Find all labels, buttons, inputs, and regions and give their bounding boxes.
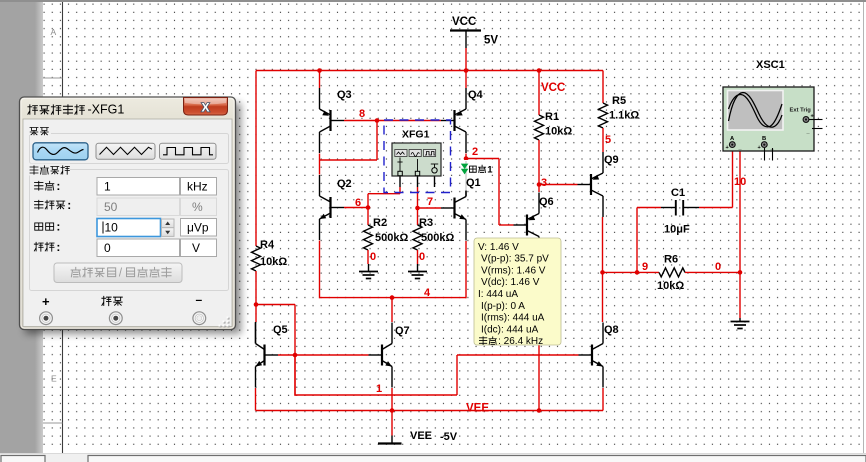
svg-text:+: + — [811, 114, 814, 120]
svg-text:R5: R5 — [612, 95, 626, 107]
svg-text:1: 1 — [104, 180, 111, 194]
svg-text:I(p-p): 0 A: I(p-p): 0 A — [481, 301, 525, 312]
svg-text:C1: C1 — [671, 187, 685, 199]
svg-text:-XFG1: -XFG1 — [88, 103, 125, 117]
svg-text:3: 3 — [541, 177, 547, 189]
svg-text:5: 5 — [605, 134, 611, 146]
svg-text:I(rms): 444 uA: I(rms): 444 uA — [481, 313, 545, 324]
svg-text:VCC: VCC — [541, 82, 565, 94]
svg-text:Q8: Q8 — [604, 324, 619, 336]
svg-text:VCC: VCC — [452, 16, 476, 28]
svg-text:500kΩ: 500kΩ — [375, 232, 408, 244]
svg-text::: : — [56, 240, 60, 254]
svg-text:1: 1 — [487, 165, 493, 176]
svg-text:6: 6 — [355, 197, 361, 209]
svg-text:8: 8 — [359, 108, 365, 120]
svg-text:%: % — [192, 200, 203, 214]
svg-text:+: + — [42, 294, 50, 309]
svg-text:Q5: Q5 — [273, 324, 288, 336]
svg-text:Q9: Q9 — [604, 154, 619, 166]
svg-text:Q4: Q4 — [468, 89, 484, 101]
svg-text:0: 0 — [370, 251, 376, 263]
svg-text:R4: R4 — [260, 239, 275, 251]
svg-text:Q7: Q7 — [395, 325, 410, 337]
svg-text:R2: R2 — [373, 217, 387, 229]
svg-text:V(dc): 1.46 V: V(dc): 1.46 V — [481, 277, 540, 288]
svg-text:Q3: Q3 — [337, 89, 352, 101]
svg-text:–: – — [196, 293, 203, 307]
svg-text:1.1kΩ: 1.1kΩ — [609, 110, 639, 122]
svg-text:V: V — [192, 241, 200, 255]
svg-text:Q6: Q6 — [539, 196, 554, 208]
svg-text:10kΩ: 10kΩ — [657, 280, 684, 292]
svg-text:5V: 5V — [484, 35, 498, 47]
svg-text:kHz: kHz — [187, 180, 208, 194]
svg-text:VEE: VEE — [410, 430, 432, 442]
svg-text:V: 1.46 V: V: 1.46 V — [478, 242, 519, 253]
svg-text:XFG1: XFG1 — [402, 129, 430, 141]
svg-text:2: 2 — [472, 146, 478, 158]
svg-text:+: + — [726, 145, 729, 151]
svg-text:I(dc): 444 uA: I(dc): 444 uA — [481, 324, 539, 335]
svg-text:R1: R1 — [545, 111, 559, 123]
svg-text:10μF: 10μF — [664, 224, 690, 236]
svg-text:-5V: -5V — [440, 431, 458, 443]
svg-text:E: E — [51, 374, 57, 384]
svg-text:Q1: Q1 — [466, 177, 481, 189]
svg-text:V(p-p): 35.7 pV: V(p-p): 35.7 pV — [481, 254, 549, 265]
svg-text:R3: R3 — [419, 217, 433, 229]
svg-text:+: + — [758, 145, 761, 151]
svg-text:μVp: μVp — [187, 221, 209, 235]
svg-text:: 26.4 kHz: : 26.4 kHz — [498, 336, 543, 347]
svg-text:R6: R6 — [664, 254, 678, 266]
svg-text:50: 50 — [104, 200, 118, 214]
svg-text:10: 10 — [105, 221, 119, 235]
svg-text:10kΩ: 10kΩ — [545, 126, 572, 138]
svg-text:XSC1: XSC1 — [756, 59, 785, 71]
svg-text:1: 1 — [376, 383, 382, 395]
svg-text:A: A — [51, 27, 57, 37]
svg-text:V(rms): 1.46 V: V(rms): 1.46 V — [481, 265, 546, 276]
svg-text:Ext Trig: Ext Trig — [790, 108, 812, 114]
svg-text:0: 0 — [419, 251, 425, 263]
svg-text:VEE: VEE — [466, 403, 489, 415]
svg-text:10kΩ: 10kΩ — [260, 256, 287, 268]
svg-text:Q2: Q2 — [337, 178, 352, 190]
svg-text:0: 0 — [715, 261, 721, 273]
svg-text:X: X — [201, 101, 209, 115]
svg-text:9: 9 — [642, 261, 648, 273]
svg-text:500kΩ: 500kΩ — [421, 232, 454, 244]
svg-text::: : — [56, 220, 60, 234]
svg-text:B: B — [762, 136, 766, 142]
svg-text:4: 4 — [424, 287, 431, 299]
svg-text:10: 10 — [734, 176, 746, 188]
svg-text:7: 7 — [427, 196, 433, 208]
svg-text:0: 0 — [104, 241, 111, 255]
svg-text::: : — [67, 198, 71, 212]
svg-text::: : — [56, 179, 60, 193]
svg-text:I: 444 uA: I: 444 uA — [478, 289, 518, 300]
